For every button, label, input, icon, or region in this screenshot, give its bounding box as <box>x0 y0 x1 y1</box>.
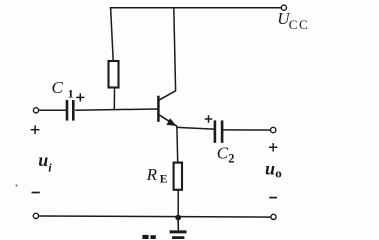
svg-text:1: 1 <box>68 86 74 100</box>
wire emitter node horizontal to C2 <box>177 127 214 129</box>
capacitor C2 left plate <box>214 120 217 142</box>
svg-text:2: 2 <box>228 151 234 165</box>
wire bottom rail <box>39 216 270 217</box>
minus sign output <box>269 197 277 199</box>
transistor Q emitter arrowhead <box>166 118 176 126</box>
transistor Q collector lead <box>158 91 175 101</box>
wire top supply rail <box>110 7 280 9</box>
minus sign input <box>32 192 40 194</box>
svg-text:R: R <box>146 165 158 184</box>
wire bias resistor to base node <box>113 88 115 110</box>
wire collector vertical to rail <box>174 8 176 91</box>
terminal Ucc <box>281 5 286 10</box>
svg-text:C: C <box>52 78 64 97</box>
plus sign at C1 <box>76 93 84 101</box>
plus sign output <box>269 143 277 151</box>
wire rail corner down to bias resistor <box>111 8 114 61</box>
caption fragment (cropped text at bottom edge) <box>142 235 155 239</box>
plus sign at C2 <box>205 115 213 123</box>
output terminal top <box>271 127 276 132</box>
wire RE to bottom rail <box>177 191 179 217</box>
wire base (C1 to transistor base) <box>76 109 158 110</box>
junction dot emitter/ground node <box>175 215 181 221</box>
wire input terminal to C1 <box>39 109 66 111</box>
ground bar 2 <box>172 236 184 239</box>
svg-text:C: C <box>217 143 229 162</box>
ground bar 1 <box>170 230 187 233</box>
svg-text:E: E <box>160 174 168 186</box>
input terminal bottom <box>33 213 38 218</box>
transistor Q (NPN) base bar <box>157 96 160 122</box>
wire C2 to output terminal <box>223 129 269 131</box>
resistor Rb (bias resistor, unlabeled) <box>109 61 119 88</box>
transistor Q emitter lead <box>158 114 177 126</box>
wire emitter node down to RE <box>176 127 179 162</box>
capacitor C2 right plate <box>221 120 224 142</box>
svg-text:CC: CC <box>289 17 309 32</box>
capacitor C1 right plate <box>72 100 75 121</box>
svg-text:u: u <box>38 150 48 170</box>
svg-text:o: o <box>275 166 282 181</box>
stray dot mark <box>16 185 18 187</box>
ground stem <box>177 218 179 231</box>
svg-text:u: u <box>265 158 275 178</box>
plus sign input <box>31 125 40 134</box>
input terminal top <box>33 108 38 113</box>
svg-text:i: i <box>48 160 52 174</box>
resistor RE <box>174 163 182 190</box>
capacitor C1 left plate <box>66 100 69 121</box>
output terminal bottom <box>271 214 276 219</box>
